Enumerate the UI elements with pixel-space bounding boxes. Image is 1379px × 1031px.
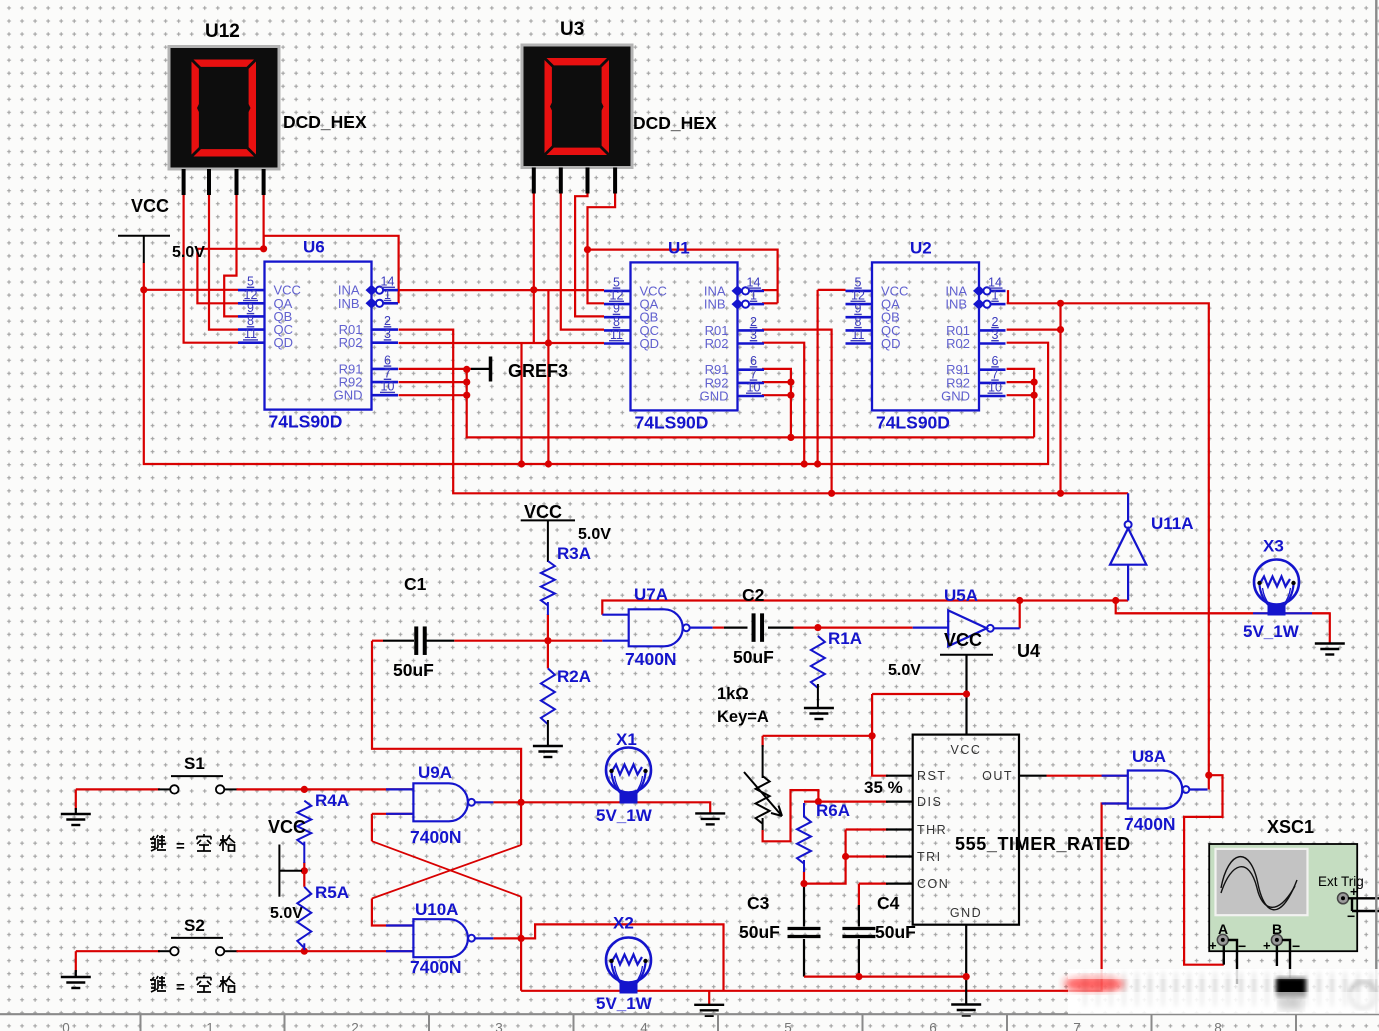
svg-text:3: 3 [384,327,391,341]
svg-text:GND: GND [700,389,729,404]
ground below 555 [951,1005,981,1016]
power VCC symbol mid (R3A) [521,519,575,521]
svg-text:THR: THR [917,823,947,837]
svg-text:U9A: U9A [418,763,452,782]
svg-text:10: 10 [381,380,395,394]
wire U2 VCC pin5 [818,289,846,291]
wire U5A out / U7A in / U11A in net [602,601,1128,615]
junction dots [140,286,147,293]
svg-text:RST: RST [917,769,947,783]
svg-text:5: 5 [247,275,254,289]
svg-text:C1: C1 [404,574,427,594]
svg-text:VCC: VCC [951,743,982,757]
svg-text:6: 6 [750,354,757,368]
svg-text:C4: C4 [877,893,900,913]
lamp X2 [606,938,651,983]
svg-text:5.0V: 5.0V [888,662,921,679]
svg-text:14: 14 [988,275,1002,289]
svg-text:1: 1 [750,289,757,303]
svg-text:7400N: 7400N [1124,814,1176,834]
svg-text:INB: INB [704,297,726,312]
svg-text:R2A: R2A [557,667,591,686]
svg-text:QD: QD [274,335,294,350]
svg-text:4: 4 [640,1021,648,1031]
svg-text:5: 5 [613,275,620,289]
label key=space S1 [150,834,235,851]
svg-text:U6: U6 [303,238,325,257]
wire U3 pin2 to U1 QC [561,193,604,330]
wire U8A stubs [1102,775,1128,777]
svg-text:C3: C3 [747,893,770,913]
svg-text:U2: U2 [910,238,932,257]
svg-text:10: 10 [988,381,1002,395]
svg-text:R02: R02 [705,336,729,351]
svg-text:7400N: 7400N [410,957,462,977]
svg-text:XSC1: XSC1 [1267,817,1314,837]
wire U3 pin4 to U1 QA and INA/INB [588,193,616,303]
svg-text:U3: U3 [560,19,584,40]
svg-text:R02: R02 [946,336,970,351]
switch S2 [171,937,223,939]
svg-text:8: 8 [855,315,862,329]
svg-text:DCD_HEX: DCD_HEX [283,112,367,132]
svg-text:=: = [176,979,185,996]
wire X3 branch [1116,601,1330,644]
svg-text:8: 8 [247,314,254,328]
svg-text:12: 12 [244,288,258,302]
svg-text:QD: QD [881,336,901,351]
inverter U5A [948,610,987,646]
svg-text:VCC: VCC [268,817,306,837]
svg-text:U11A: U11A [1151,514,1194,533]
svg-text:+: + [1263,938,1271,953]
svg-text:74LS90D: 74LS90D [269,412,343,432]
lamp X1 [606,748,651,793]
svg-text:6: 6 [992,354,999,368]
svg-text:C2: C2 [742,585,765,605]
svg-text:U5A: U5A [944,586,978,605]
ground below R2A [533,746,563,757]
wire potentiometer net [763,735,873,737]
svg-text:1: 1 [992,289,999,303]
resistor R6A [803,803,805,818]
svg-text:R02: R02 [339,335,363,350]
ground S1 [61,814,91,825]
svg-text:INB: INB [945,297,967,312]
svg-text:7: 7 [750,367,757,381]
svg-text:0: 0 [62,1021,70,1031]
svg-text:DCD_HEX: DCD_HEX [633,113,717,133]
svg-text:5.0V: 5.0V [578,526,611,543]
svg-text:7400N: 7400N [410,827,462,847]
timer U4 555_TIMER_RATED [913,735,1019,925]
switch S1 [171,775,223,777]
svg-text:GND: GND [941,389,970,404]
wire S1 to U9A input [76,788,160,790]
svg-text:S1: S1 [184,754,205,773]
svg-text:5V_1W: 5V_1W [596,806,653,825]
svg-text:X3: X3 [1263,537,1284,556]
wire X3 net [1116,612,1253,614]
7-segment display U12 [169,47,279,170]
svg-text:7: 7 [384,367,391,381]
svg-text:U10A: U10A [415,900,458,919]
svg-text:2: 2 [351,1021,359,1031]
wire U3 pin3 to U1 QB [575,193,604,316]
inverter U11A [1110,528,1146,565]
ground X2 [694,1005,724,1016]
svg-text:7: 7 [992,367,999,381]
counter U6 74LS90D [265,262,372,410]
lamp X3 [1254,560,1299,605]
svg-text:U4: U4 [1017,641,1040,661]
svg-text:2: 2 [750,315,757,329]
wire U8A output to scope A [1184,775,1224,965]
svg-text:50uF: 50uF [875,922,916,942]
svg-text:14: 14 [747,275,761,289]
nand gate U8A 7400N [1128,771,1183,809]
svg-text:QD: QD [640,336,660,351]
wire U5A input stub [913,626,949,628]
ground below R1A [804,708,834,719]
svg-text:9: 9 [855,302,862,316]
wire THR TRI net [846,828,888,830]
wire U9A output to X1 and cross-couple [493,802,710,813]
power VCC symbol U4 [940,654,993,656]
svg-text:555_TIMER_RATED: 555_TIMER_RATED [955,834,1131,854]
wire RST net and VCC stem [872,693,966,695]
svg-text:U12: U12 [205,21,240,42]
svg-text:5V_1W: 5V_1W [596,994,653,1013]
svg-text:50uF: 50uF [393,660,434,680]
wire GREF3 net [399,368,471,370]
wire U2 R01 [1007,329,1061,331]
svg-text:7400N: 7400N [625,649,677,669]
wire DIS net [804,800,888,802]
svg-text:5.0V: 5.0V [172,244,205,261]
svg-text:12: 12 [851,289,865,303]
wire U1 R01 net [762,330,832,494]
svg-text:R6A: R6A [816,801,850,820]
svg-text:50uF: 50uF [739,922,780,942]
power VCC symbol side [278,845,280,897]
wire CON net to C4 [859,882,888,884]
counter U1 74LS90D [631,262,738,410]
resistor R1A [811,636,825,688]
wire U6 R02 / U1 QD row [399,342,604,344]
svg-text:B: B [1272,921,1282,937]
svg-text:X2: X2 [613,914,634,933]
svg-text:6: 6 [929,1021,937,1031]
svg-text:R4A: R4A [315,791,349,810]
wire C1 left to U9A output [372,640,383,642]
svg-text:9: 9 [247,301,254,315]
svg-text:U7A: U7A [634,585,668,604]
svg-text:5: 5 [784,1021,792,1031]
ground X1 [695,813,725,824]
svg-text:−: − [1238,938,1246,954]
svg-text:3: 3 [992,328,999,342]
svg-text:VCC: VCC [944,630,982,650]
capacitor C1 [414,626,418,655]
svg-text:9: 9 [613,302,620,316]
svg-text:A: A [1218,921,1228,937]
wire U6 R01 net [399,330,1129,494]
svg-text:5V_1W: 5V_1W [1243,622,1300,641]
svg-text:35 %: 35 % [864,778,903,797]
svg-text:11: 11 [852,328,865,342]
svg-text:R1A: R1A [828,629,862,648]
capacitor C2 [752,613,756,642]
resistor R4A [297,801,311,845]
wire U3 pin1 [533,193,535,343]
svg-text:Key=A: Key=A [717,708,769,726]
label key=space S2 [150,975,235,992]
svg-text:VCC: VCC [524,502,562,522]
svg-text:10: 10 [747,381,761,395]
svg-text:X1: X1 [616,730,637,749]
oscilloscope XSC1 [1209,844,1357,951]
wire U9A stubs [386,788,413,790]
svg-text:2: 2 [384,314,391,328]
svg-text:12: 12 [610,289,624,303]
wire U5A output stub [994,627,1020,629]
svg-text:INB: INB [338,296,360,311]
wire U7A stubs [602,614,628,616]
wire R6A bottom to C3 [803,871,805,884]
svg-text:CON: CON [917,877,949,891]
counter U2 74LS90D [872,262,979,410]
wire U1 R02 net [762,343,804,464]
resistor R5A [297,887,311,948]
svg-text:−: − [1292,938,1300,954]
svg-text:14: 14 [381,275,395,289]
svg-text:S2: S2 [184,916,205,935]
svg-text:5.0V: 5.0V [270,905,303,922]
svg-text:DIS: DIS [917,795,942,809]
svg-text:GND: GND [334,388,363,403]
wire C2 R1A U5A input net [713,626,724,628]
svg-text:GREF3: GREF3 [508,361,568,381]
svg-text:50uF: 50uF [733,647,774,667]
svg-text:11: 11 [610,328,623,342]
svg-text:11: 11 [244,327,257,341]
svg-text:5: 5 [855,275,862,289]
wire VCC rail net [144,263,1048,464]
svg-text:8: 8 [1214,1021,1222,1031]
nand gate U10A 7400N [413,919,468,957]
resistor R2A [541,668,555,724]
wire U9A bottom input cross-couple [372,813,414,815]
wire U12 pin2 to U6 QC [209,194,238,330]
nand gate U9A 7400N [413,783,468,821]
power VCC symbol top-left [118,235,170,237]
ground below X3 [1315,644,1345,655]
wire S2 to U10A input [76,950,160,952]
resistor R3A [541,561,555,605]
wire 555 VCC stem [965,655,967,735]
wire U2 INA INB net to U8A output [1007,290,1009,303]
svg-text:1kΩ: 1kΩ [717,685,749,703]
svg-text:1: 1 [206,1021,214,1031]
svg-text:GND: GND [950,906,982,920]
svg-text:3: 3 [750,328,757,342]
wire 555 OUT to U8A input [1019,775,1047,777]
svg-text:U1: U1 [668,238,690,257]
svg-text:R3A: R3A [557,544,591,563]
wire R4A R5A VCC net [303,862,305,887]
svg-text:74LS90D: 74LS90D [876,412,950,432]
svg-text:2: 2 [992,315,999,329]
ground GREF3 [471,368,489,370]
svg-text:74LS90D: 74LS90D [635,412,709,432]
wire R3A R2A C1 U7A input net [547,614,549,668]
svg-text:TRI: TRI [917,850,942,864]
svg-text:U8A: U8A [1132,747,1166,766]
svg-text:R5A: R5A [315,883,349,902]
svg-text:OUT: OUT [982,769,1013,783]
svg-text:3: 3 [495,1021,503,1031]
scope probe wires [1348,897,1379,899]
svg-text:+: + [1209,938,1217,953]
nand gate U7A 7400N [629,609,683,646]
svg-text:7: 7 [1073,1021,1081,1031]
capacitor C4 [842,927,875,930]
wire U12 pin3 to U6 QB [224,194,238,316]
svg-text:+: + [1350,884,1358,899]
svg-text:VCC: VCC [131,196,169,216]
capacitor C3 [788,927,821,930]
ground S2 [61,977,91,988]
wire U10A output net to X2 and U8A input [493,938,521,990]
potentiometer 35% [756,776,770,824]
svg-text:1: 1 [384,288,391,302]
svg-text:8: 8 [613,315,620,329]
wire U11A stubs [1127,493,1129,521]
svg-text:=: = [176,838,185,855]
7-segment display U3 [522,45,632,168]
wire C3 C4 555 GND bottom net [804,975,966,977]
wire U12 pin1 to U6 QD [184,194,238,343]
wire U10A stubs [386,924,413,926]
svg-text:6: 6 [384,353,391,367]
wire U12 pinD / U6 INA INB net [263,194,265,249]
